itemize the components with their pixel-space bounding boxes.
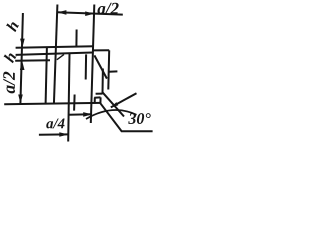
label a/2 (left, rotated) xyxy=(3,72,15,94)
arrow right middle dimension xyxy=(83,112,92,117)
wire corner vertical xyxy=(102,69,104,94)
label a/2 (top) xyxy=(97,3,118,14)
wire angle ray diagonal and shelf xyxy=(100,103,152,131)
label h (left, rotated) xyxy=(3,51,16,63)
wire centre stub above box xyxy=(75,30,77,47)
label 30 degrees xyxy=(128,113,150,124)
arrow right a/4 xyxy=(59,132,68,137)
wire corner horizontal xyxy=(96,93,103,95)
wire top dimension line a/2 xyxy=(57,12,122,14)
wire flange line 1 xyxy=(16,46,94,47)
wire stub to the right xyxy=(109,70,118,72)
wire right edge xyxy=(107,50,110,89)
wire flange line 3 xyxy=(15,59,50,62)
wire short inner vertical upper xyxy=(85,54,87,79)
wire u-shape vertical xyxy=(99,97,101,103)
wire inner diagonal xyxy=(94,55,107,78)
wire right extension edge long line xyxy=(91,5,95,124)
arrow left for top a/2 xyxy=(57,10,66,15)
wire long bottom line xyxy=(4,103,100,104)
wire a/4 dimension line xyxy=(39,133,68,135)
wire angle arc xyxy=(86,110,137,119)
wire left extension edge line xyxy=(54,5,58,105)
wire top edge left part xyxy=(16,53,93,55)
wire small tick xyxy=(57,54,64,59)
wire box left edge xyxy=(46,47,47,104)
arrow up for h xyxy=(20,61,25,70)
wire u-shape left leg xyxy=(94,98,96,104)
arrow down for h xyxy=(20,39,25,48)
wire short inner vertical lower xyxy=(73,95,76,111)
wire vertical dimension line for h and a/2 xyxy=(20,13,23,104)
arrow down for a/2 left xyxy=(18,95,23,104)
wire top edge right part xyxy=(93,49,109,51)
wire u-shape horizontal xyxy=(94,96,100,98)
arrow right for top a/2 xyxy=(85,11,94,16)
label h (top, rotated) xyxy=(6,20,19,32)
arrow on leader xyxy=(111,102,119,107)
wire leader line to arc xyxy=(111,93,137,107)
wire chamfer diagonal xyxy=(103,92,124,116)
wire inner vertical fold line xyxy=(68,54,69,142)
wire middle dimension line xyxy=(69,113,92,116)
label a/4 (bottom) xyxy=(46,118,64,128)
